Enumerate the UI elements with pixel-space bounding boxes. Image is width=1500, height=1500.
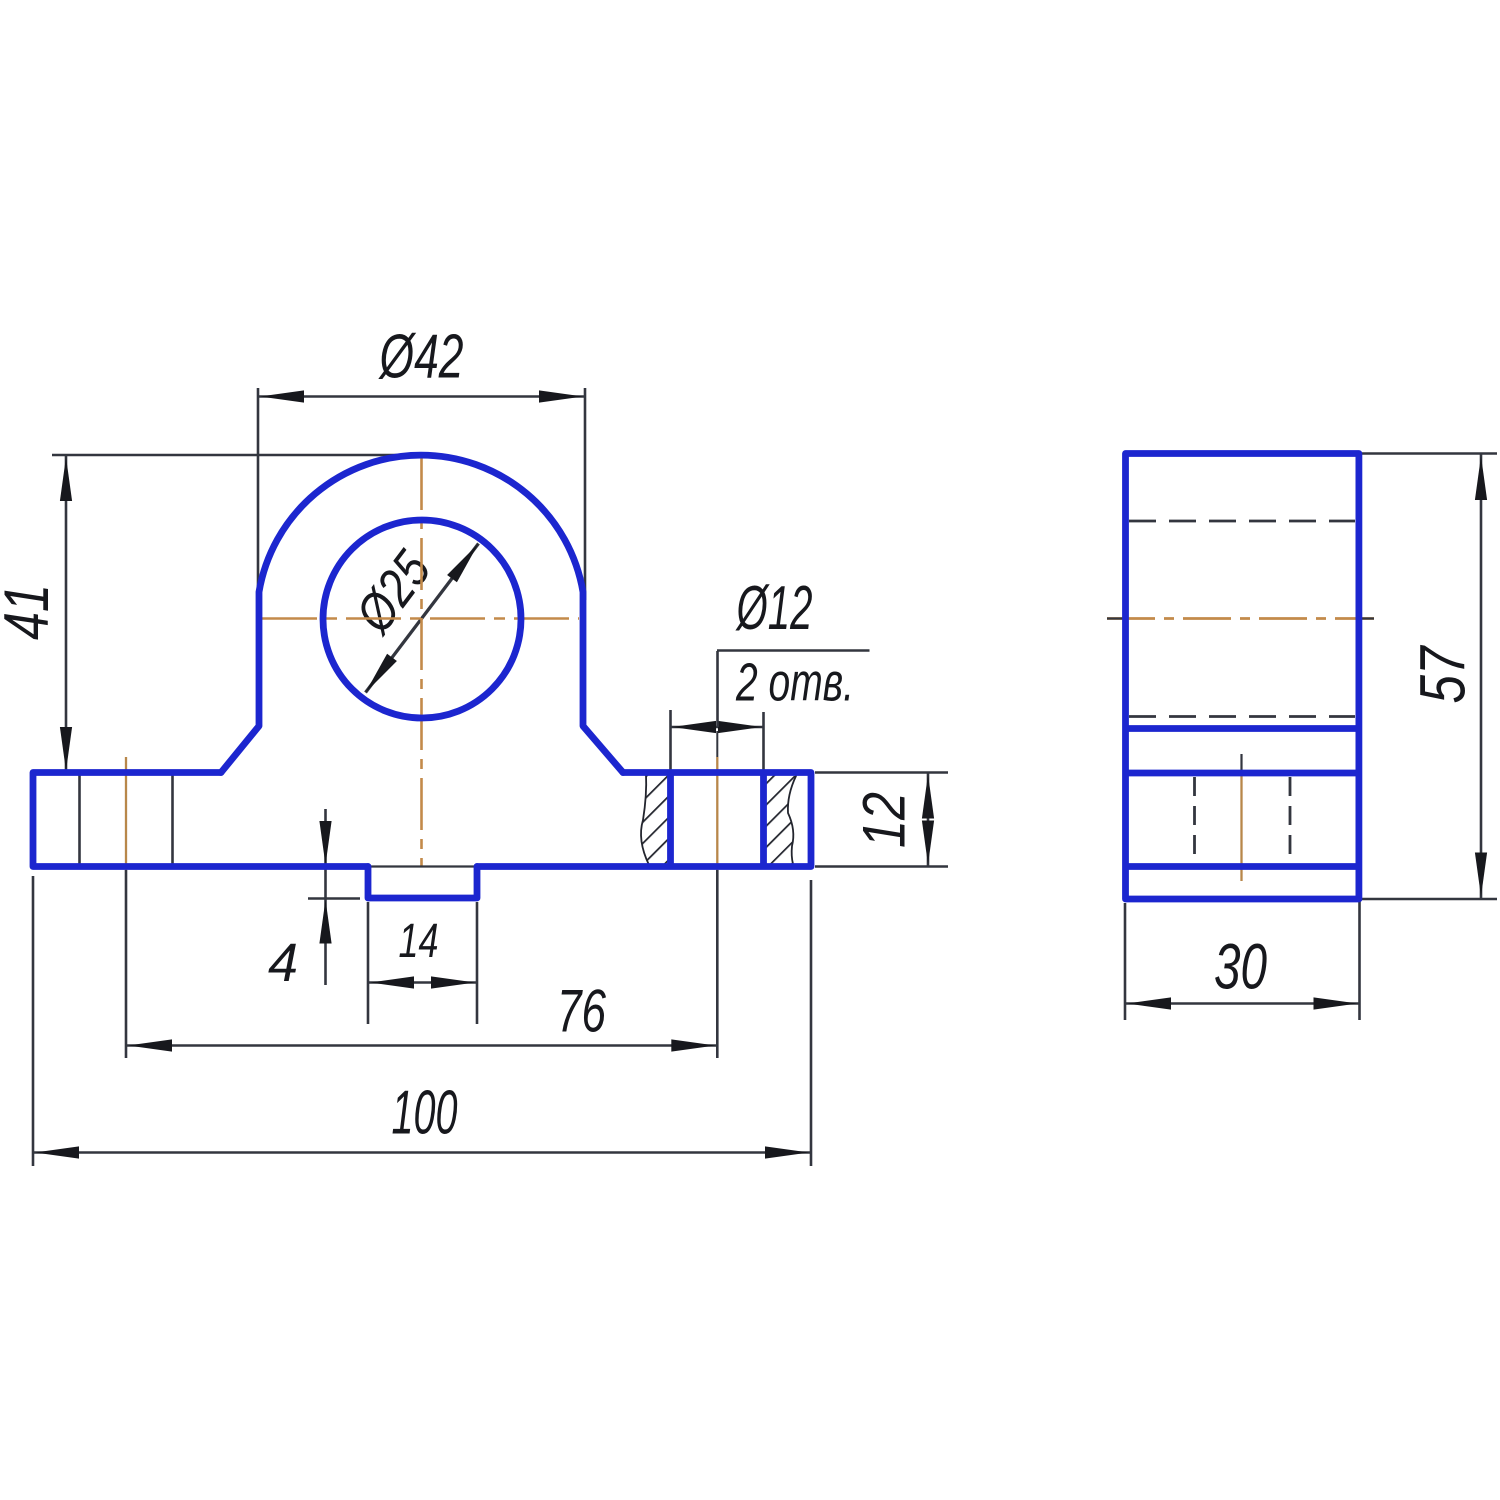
side view chamfer edge line xyxy=(1126,725,1359,732)
left hatch area of local section xyxy=(641,774,668,865)
dim 30 dimension line xyxy=(1125,1002,1360,1005)
dim 4 dimension lines xyxy=(324,809,327,985)
right break wavy line xyxy=(788,776,796,864)
side view hidden bore line bottom xyxy=(1129,715,1355,718)
dim 14 extension lines xyxy=(367,902,370,1024)
front view horizontal centerline xyxy=(262,617,579,620)
svg-text:57: 57 xyxy=(1407,645,1479,704)
dim 14 dimension line xyxy=(368,981,477,984)
svg-text:Ø12: Ø12 xyxy=(735,574,812,643)
svg-text:30: 30 xyxy=(1214,931,1267,1003)
dim 12 dimension line xyxy=(927,773,930,867)
side view hidden hole edges xyxy=(1193,777,1196,864)
dim 76 extension lines xyxy=(125,870,128,1058)
dim 41 extension line xyxy=(52,454,412,457)
dim phi42 extension lines xyxy=(257,388,260,600)
side view base bottom line xyxy=(1126,863,1359,870)
dim 4 tick line xyxy=(308,897,360,900)
left hole edge lines xyxy=(78,773,81,867)
dim phi42 dimension line xyxy=(258,395,585,398)
right hole centerline xyxy=(716,731,718,757)
front view upright with arch xyxy=(221,455,623,772)
svg-text:Ø42: Ø42 xyxy=(378,323,463,392)
svg-text:4: 4 xyxy=(268,933,298,993)
dim 100 extension lines xyxy=(32,876,35,1166)
side view base top line xyxy=(1126,770,1359,777)
front view bore circle phi25 xyxy=(323,520,521,718)
dim 57 extension lines xyxy=(1362,452,1497,455)
dim 57 dimension line xyxy=(1480,454,1483,900)
svg-text:41: 41 xyxy=(0,584,62,640)
side view outline xyxy=(1126,454,1359,900)
right hatch area of local section xyxy=(766,774,796,865)
dim 12 extension lines xyxy=(815,771,948,774)
dim phi12 2otv dimension line xyxy=(671,726,764,729)
side view horizontal centerline xyxy=(1107,617,1374,620)
right hole sectioned edges xyxy=(667,773,674,867)
svg-text:Ø25: Ø25 xyxy=(344,540,443,644)
dim phi12 2otv leader and shelf xyxy=(716,651,719,727)
front view tenon outline xyxy=(368,867,477,899)
dim 30 extension lines xyxy=(1124,903,1127,1020)
svg-text:14: 14 xyxy=(399,915,439,968)
svg-text:2 отв.: 2 отв. xyxy=(735,653,854,713)
side view hole centerline xyxy=(1240,773,1242,881)
dim phi12 2otv extension lines xyxy=(669,710,672,770)
svg-text:12: 12 xyxy=(851,792,918,848)
front view base outline xyxy=(33,773,368,867)
tenon top edge line xyxy=(368,865,477,867)
svg-text:76: 76 xyxy=(557,978,606,1045)
svg-text:100: 100 xyxy=(392,1079,458,1148)
left hole centerline xyxy=(125,757,127,870)
dim 76 dimension line xyxy=(126,1044,717,1047)
side view hidden bore line top xyxy=(1129,520,1355,523)
dim 100 dimension line xyxy=(33,1151,811,1154)
dim 41 dimension line xyxy=(65,455,68,773)
left break wavy line xyxy=(641,774,649,865)
front view vertical centerline xyxy=(420,458,423,866)
dim phi25 leader line xyxy=(366,544,479,693)
